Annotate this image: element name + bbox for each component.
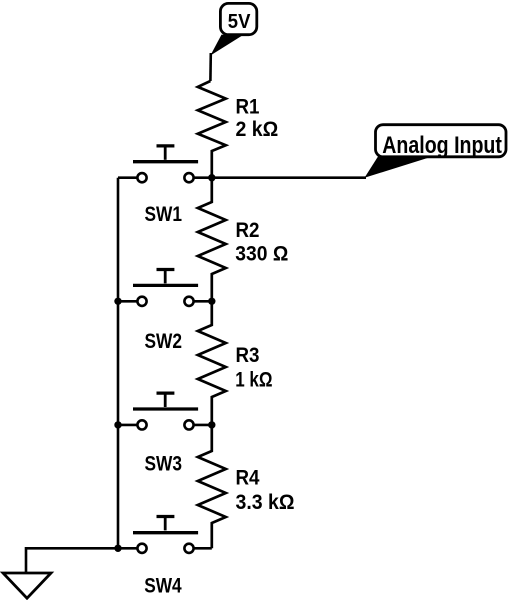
- node B junction dot on trunk: [208, 298, 215, 305]
- label R2 330 Ohm: [235, 219, 288, 266]
- net flag Analog Input: [365, 125, 507, 178]
- resistor R2: [198, 178, 226, 302]
- svg-text:330 Ω: 330 Ω: [235, 243, 288, 266]
- wire left bus: [117, 178, 120, 549]
- svg-text:3.3 kΩ: 3.3 kΩ: [236, 491, 295, 514]
- svg-text:SW1: SW1: [145, 203, 183, 226]
- svg-text:Analog Input: Analog Input: [382, 132, 502, 159]
- wire node A to Analog Input: [212, 176, 366, 179]
- svg-text:SW2: SW2: [145, 330, 183, 353]
- switch SW3: [118, 393, 212, 429]
- switch SW2: [118, 270, 212, 306]
- wire 5V to R1 (flag tail): [210, 35, 242, 81]
- switch SW1: [118, 146, 212, 182]
- node C junction dot on trunk: [208, 421, 215, 428]
- ground: [3, 573, 51, 598]
- switch SW4: [118, 517, 212, 553]
- svg-text:R2: R2: [236, 219, 260, 242]
- svg-text:2 kΩ: 2 kΩ: [236, 118, 279, 141]
- resistor R3: [198, 301, 226, 425]
- svg-text:SW4: SW4: [144, 574, 182, 597]
- svg-text:R3: R3: [236, 344, 260, 367]
- node C junction dot on bus: [114, 421, 121, 428]
- node D junction dot on bus: [114, 545, 121, 552]
- svg-text:SW3: SW3: [145, 452, 183, 475]
- svg-text:R1: R1: [236, 96, 260, 119]
- node B junction dot on bus: [114, 298, 121, 305]
- resistor R1: [198, 81, 226, 178]
- label R1 2 kOhm: [236, 96, 279, 142]
- node A junction dot: [208, 174, 215, 181]
- svg-text:5V: 5V: [228, 11, 251, 33]
- power flag 5V: [220, 3, 256, 34]
- wire node D to ground: [26, 548, 118, 573]
- resistor R4: [198, 425, 226, 548]
- label R3 1 kOhm: [235, 344, 272, 391]
- svg-text:R4: R4: [236, 467, 260, 490]
- label R4 3.3 kOhm: [236, 467, 295, 514]
- svg-text:1 kΩ: 1 kΩ: [235, 368, 272, 391]
